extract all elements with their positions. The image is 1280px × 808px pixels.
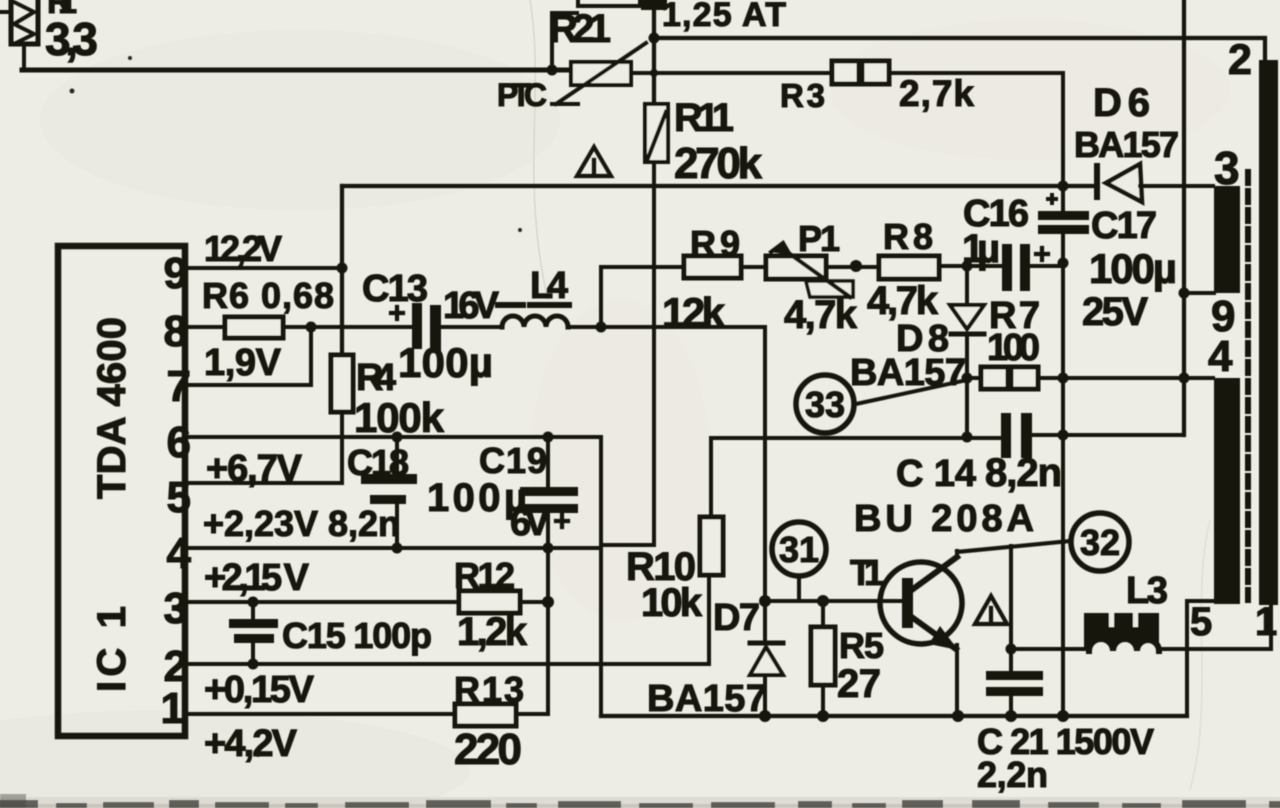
wire C13 to L4 (441, 325, 502, 329)
wire R3 left lead (654, 71, 832, 75)
capacitor C16 1u (1002, 244, 1048, 291)
svg-text:+6,7V: +6,7V (206, 448, 303, 490)
svg-text:220: 220 (454, 725, 522, 774)
capacitor C17 100u 25V (1038, 186, 1089, 261)
svg-text:27: 27 (837, 662, 881, 706)
wire R1 to mains rail (22, 44, 26, 70)
svg-text:D7: D7 (713, 597, 760, 639)
svg-text:5: 5 (167, 473, 191, 522)
wire pin 4 row (185, 546, 601, 550)
wire D8 to R7 row / node (962, 373, 973, 384)
wire collector diagonal to connector 32 (957, 541, 1070, 552)
svg-text:5: 5 (1190, 600, 1212, 644)
svg-text:32: 32 (1080, 522, 1120, 563)
svg-text:R5: R5 (839, 625, 884, 666)
svg-text:1,2k: 1,2k (457, 610, 528, 654)
svg-text:BA157: BA157 (1074, 124, 1179, 165)
svg-text:+0,15V: +0,15V (204, 669, 315, 711)
resistor R13 220 (455, 704, 516, 726)
stray mark (702, 3, 707, 8)
svg-text:R3: R3 (780, 77, 825, 114)
wire bar1 bottom to sense vertical (1184, 291, 1214, 295)
transformer winding pin2 side (right tall bar) (1259, 60, 1278, 605)
capacitor C18 8,2n (361, 432, 417, 554)
svg-text:BA157: BA157 (850, 352, 966, 394)
node R7/C17 column (1058, 373, 1069, 384)
wire R9 to P1 (741, 265, 766, 269)
diode D6 BA157 (1097, 164, 1213, 202)
svg-text:100µ: 100µ (398, 339, 493, 386)
svg-text:4,7k: 4,7k (867, 279, 939, 323)
wire L3 to transformer pin 1 (1159, 605, 1271, 649)
svg-text:25V: 25V (1082, 290, 1148, 334)
svg-text:2: 2 (1228, 36, 1252, 84)
stray mark (256, 753, 260, 757)
paper mottling (40, 30, 560, 210)
wire C14 to 1184 vertical (1032, 433, 1184, 437)
svg-text:100k: 100k (354, 394, 445, 441)
resistor R11 270k (startup, vertical with slash) (645, 104, 668, 162)
transformer winding bar pins 3-9 (1214, 186, 1240, 293)
capacitor C13 100u 16V (391, 303, 441, 353)
node emitter ground (952, 710, 964, 722)
wire L4 to base drive corner (568, 325, 765, 329)
resistor R4 100k (331, 355, 353, 412)
resistor R5 27 (811, 595, 835, 716)
svg-text:3,3: 3,3 (45, 13, 98, 65)
wire R3 right to C17 column (889, 73, 1063, 186)
wire R7 row to transformer pin 4 (1063, 376, 1213, 380)
wire P1 to R8 with node (826, 265, 879, 269)
wire base row (765, 599, 904, 603)
wire R6 to C13 (283, 325, 413, 329)
svg-text:R4: R4 (356, 357, 396, 399)
svg-text:R8: R8 (883, 216, 933, 257)
resistor R1 (fusible, mains input) (0, 0, 38, 44)
svg-text:C15 100p: C15 100p (282, 615, 432, 656)
wire pin 9 row (185, 266, 342, 270)
svg-text:TDA 4600: TDA 4600 (90, 317, 134, 499)
wire supply vertical through pin8 row to R4 (340, 268, 344, 355)
stray mark (518, 228, 522, 232)
wire ground vertical (601) (599, 437, 603, 716)
svg-text:+2,15 V: +2,15 V (204, 557, 310, 599)
connector 31 (772, 522, 826, 601)
wire pin 3 row to R12 (185, 600, 459, 604)
svg-text:270k: 270k (674, 139, 763, 188)
svg-text:R21: R21 (549, 7, 611, 51)
transistor Q1/T1 BU208A (880, 551, 962, 716)
diode D8 BA157 (950, 266, 984, 378)
node 1063 ground (1057, 710, 1069, 722)
svg-text:4,7k: 4,7k (784, 293, 858, 337)
svg-text:C13: C13 (362, 268, 428, 310)
node supply/C17 (1058, 181, 1069, 192)
wire R4 to pin 5 (185, 412, 342, 483)
wire pin 7 row (185, 327, 311, 385)
svg-text:BU 208A: BU 208A (854, 498, 1034, 540)
svg-text:1: 1 (161, 684, 185, 733)
svg-text:D6: D6 (1093, 81, 1150, 125)
svg-text:L4: L4 (530, 265, 568, 307)
wire R11 down to ground jog (601, 162, 654, 545)
svg-text:31: 31 (779, 529, 819, 570)
svg-text:+2,23V 8,2n: +2,23V 8,2n (203, 503, 400, 544)
wire regulation row from L4 tap (601, 267, 684, 327)
svg-text:T1: T1 (850, 552, 884, 593)
stray mark (128, 56, 132, 60)
node D7 ground (759, 710, 771, 722)
svg-text:100µ: 100µ (1089, 245, 1177, 292)
warning triangle (near T1) (975, 596, 1007, 624)
svg-text:BA157: BA157 (647, 678, 767, 720)
wire pin 8 row to R6 (185, 325, 225, 329)
wire base drive vertical (763, 327, 767, 601)
svg-text:C18: C18 (347, 442, 409, 483)
resistor R12 1,2k (459, 591, 520, 613)
svg-text:9: 9 (164, 249, 188, 298)
svg-text:3: 3 (164, 584, 188, 633)
wire 12V supply rail (342, 184, 1097, 188)
svg-text:7: 7 (167, 362, 191, 411)
capacitor C14 8,2n (1001, 413, 1032, 458)
node pin7 tie (306, 322, 317, 333)
wire test point 33 diagonal (856, 380, 967, 404)
svg-text:1,25 AT: 1,25 AT (662, 0, 786, 34)
ground rail (601, 714, 1187, 718)
svg-text:L3: L3 (1126, 570, 1168, 612)
resistor R9 12k (684, 256, 741, 278)
wire pin1/pin3 vertical (546, 548, 550, 714)
wire PTC to startup line (631, 71, 654, 75)
wire supply rail drop to pin 9 (340, 186, 344, 268)
node D8 anode (962, 261, 973, 272)
svg-text:C19: C19 (479, 440, 547, 481)
node R5 ground (817, 710, 829, 722)
wire R12 to vertical (520, 600, 548, 604)
transformer core (dashed) (1245, 172, 1251, 600)
fuse F1 1,25AT (mostly cut off at top) (578, 0, 667, 10)
op-amp U1 / IC1 TDA4600 body (58, 246, 185, 736)
warning triangle (top) (577, 147, 611, 176)
svg-text:4: 4 (1208, 332, 1233, 381)
svg-text:+4,2V: +4,2V (204, 723, 298, 765)
wire pin 1 row to R13 (185, 712, 455, 716)
wire R13 to vertical (516, 712, 548, 716)
capacitor C19 100u 6V (520, 432, 578, 554)
svg-text:100: 100 (987, 327, 1040, 369)
svg-text:C17: C17 (1091, 205, 1157, 247)
connector 33 (796, 375, 854, 433)
resistor R10 10k (700, 438, 723, 575)
node fuse-left drop (552, 13, 577, 70)
wire C17 column down (1061, 261, 1065, 713)
wire pin4/ground jog to startup line (601, 543, 654, 547)
stray mark (70, 89, 75, 94)
svg-text:R13: R13 (454, 669, 524, 710)
svg-text:P1: P1 (798, 218, 840, 259)
svg-text:R12: R12 (454, 555, 515, 596)
wire C21 node to L3 (1011, 647, 1087, 651)
node C21 ground (1005, 710, 1017, 722)
svg-text:8,2n: 8,2n (985, 451, 1062, 495)
scan edge: cut-off print of next line (0, 800, 38, 808)
resistor R3 2,7k (832, 61, 889, 84)
svg-text:6: 6 (167, 418, 191, 467)
connector 32 (1071, 513, 1129, 571)
wire pin 2 row (185, 575, 709, 664)
svg-text:R6 0,68: R6 0,68 (202, 275, 334, 316)
svg-text:C 14: C 14 (896, 453, 976, 495)
wire R8 to C16 (939, 264, 1002, 268)
svg-text:12k: 12k (662, 289, 726, 336)
svg-text:6V: 6V (510, 502, 551, 544)
svg-text:R9: R9 (690, 223, 740, 264)
capacitor C21 2,2n 1500V (986, 546, 1043, 716)
base drive node (759, 595, 771, 607)
svg-text:1µ: 1µ (962, 227, 1000, 271)
node fuse output (649, 33, 660, 44)
wire mains rail (thick horizontal) (22, 68, 572, 73)
svg-text:4: 4 (167, 529, 192, 578)
resistor R8 4,7k (879, 256, 939, 279)
inductor L4 (498, 305, 569, 327)
svg-text:10k: 10k (641, 581, 703, 625)
wire collector sense row (711, 436, 1002, 440)
wire D8 node down to C14 row (965, 380, 969, 437)
diode D7 BA157 (750, 601, 783, 716)
capacitor C15 100p (229, 597, 278, 670)
wire C16 to C17 column (1030, 264, 1063, 268)
svg-text:33: 33 (805, 384, 845, 425)
svg-text:1: 1 (1255, 600, 1277, 644)
svg-text:2,7k: 2,7k (899, 73, 974, 114)
svg-text:12,2V: 12,2V (204, 228, 282, 269)
potentiometer P1 4,7k (766, 243, 853, 297)
wire pin 6 row (185, 435, 601, 439)
node pin4 sense (1179, 373, 1190, 384)
wire fuse to transformer pin 2 (654, 38, 1265, 64)
scan bottom band (0, 797, 1280, 808)
svg-text:2,2n: 2,2n (977, 754, 1048, 795)
svg-text:16V: 16V (443, 285, 500, 327)
resistor R7 100 (967, 367, 1063, 389)
inductor L3 (1084, 613, 1159, 651)
svg-text:3: 3 (1214, 142, 1240, 194)
resistor R21 PTC (552, 43, 646, 104)
svg-text:R11: R11 (674, 96, 734, 140)
transformer winding bar pins 4-5 (1214, 378, 1240, 604)
svg-text:1,9V: 1,9V (204, 342, 282, 384)
svg-text:8: 8 (164, 307, 188, 356)
resistor R6 0,68 (225, 317, 283, 338)
wire sense vertical 1184 from top (1182, 0, 1186, 435)
wire ground rail to transformer pin 5 (1187, 601, 1213, 716)
svg-text:PTC: PTC (497, 77, 547, 113)
wire fuse vertical down (mains startup line) (652, 8, 656, 104)
